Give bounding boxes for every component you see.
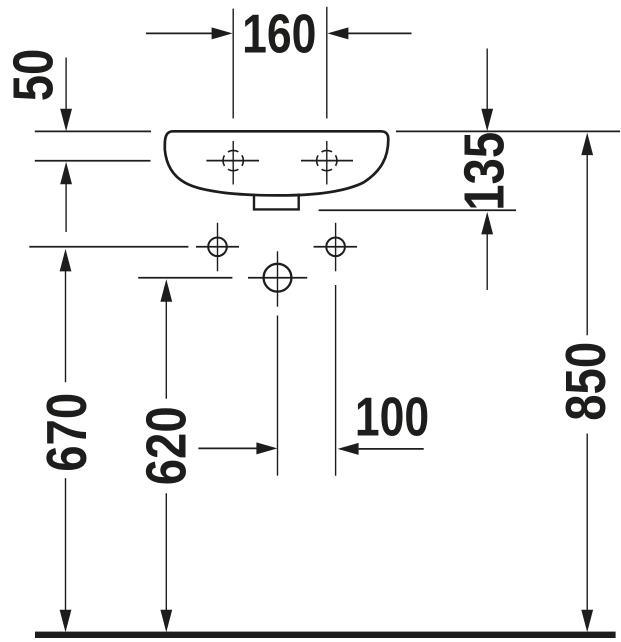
- dimension 50: [2, 49, 72, 232]
- tab bottom reference line: [319, 209, 516, 211]
- drain hole: [248, 251, 307, 306]
- svg-text:670: 670: [36, 393, 99, 472]
- dimension 135: [453, 49, 516, 291]
- mounting hole left: [196, 223, 239, 271]
- washbasin outline: [165, 131, 388, 195]
- rim reference line left: [35, 130, 151, 132]
- svg-text:50: 50: [2, 49, 65, 102]
- floor line: [35, 632, 616, 638]
- svg-text:620: 620: [136, 406, 199, 485]
- svg-text:850: 850: [555, 342, 618, 421]
- dimension 850: [555, 133, 618, 633]
- dimension 620: [136, 279, 278, 632]
- svg-text:160: 160: [242, 3, 316, 65]
- drain level reference line: [138, 277, 232, 279]
- dimension 100: [338, 386, 430, 455]
- mounting holes reference line: [29, 246, 188, 248]
- svg-text:100: 100: [355, 386, 429, 448]
- dimension 160: [146, 3, 412, 118]
- faucet hole right (dashed): [301, 141, 353, 185]
- rim reference line right: [396, 130, 620, 132]
- mounting hole right: [314, 223, 357, 271]
- faucet hole left (dashed): [206, 141, 259, 185]
- center line below right mounting hole: [335, 285, 337, 476]
- svg-text:135: 135: [453, 132, 516, 211]
- drain tab: [254, 194, 299, 210]
- dimension 670: [36, 249, 99, 632]
- faucet level reference line: [35, 160, 151, 162]
- center line below drain hole: [277, 316, 279, 476]
